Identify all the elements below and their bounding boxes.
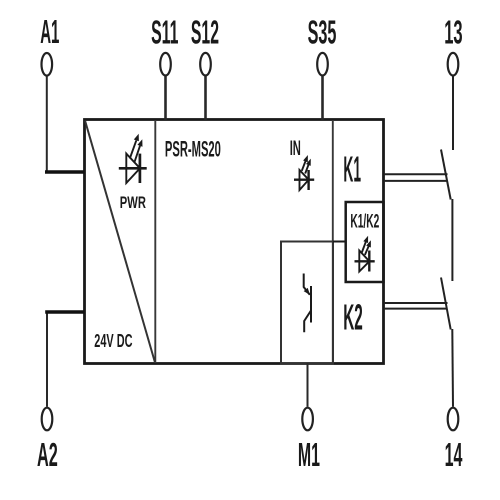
- svg-text:A1: A1: [40, 14, 59, 51]
- wire A1 horizontal into box: [45, 170, 85, 173]
- wire S11: [164, 76, 167, 120]
- svg-text:K1: K1: [343, 148, 361, 189]
- svg-text:S35: S35: [308, 15, 337, 52]
- phototransistor Q1 collector arrowhead: [304, 288, 310, 295]
- phototransistor Q1 emitter: [304, 311, 311, 333]
- K1/K2 indicator box: [346, 202, 384, 282]
- terminal 14: [448, 408, 459, 431]
- svg-text:13: 13: [444, 15, 462, 52]
- terminal M1: [302, 408, 313, 431]
- main relay body outline U1 PSR-MS20: [85, 120, 384, 364]
- svg-text:PSR-MS20: PSR-MS20: [165, 136, 221, 161]
- wire contact K2 to terminal 14: [451, 329, 454, 407]
- terminal S11: [160, 53, 171, 76]
- contact K2 lever: [441, 278, 451, 330]
- svg-text:A2: A2: [37, 437, 58, 474]
- linkage K1 double line: [384, 173, 448, 175]
- phototransistor Q1 base bar: [310, 286, 312, 323]
- wire A2 horizontal into box: [45, 310, 84, 313]
- LED K1/K2 D3: [355, 236, 375, 272]
- wire between contacts: [451, 199, 453, 281]
- wire S12: [204, 76, 207, 120]
- divider K1 K2 column: [332, 120, 334, 363]
- svg-text:K1/K2: K1/K2: [350, 210, 379, 232]
- wire opto box to K1/K2 box: [333, 241, 346, 243]
- terminal 13: [448, 53, 459, 76]
- divider power section: [154, 120, 156, 363]
- terminal S35: [317, 53, 328, 76]
- svg-text:K2: K2: [343, 296, 363, 337]
- terminal S12: [200, 53, 211, 76]
- svg-text:M1: M1: [298, 437, 320, 474]
- phototransistor Q1 collector: [304, 274, 310, 295]
- LED IN D2: [294, 155, 314, 190]
- svg-text:S12: S12: [191, 15, 219, 52]
- linkage K2 double line: [384, 302, 448, 304]
- wire S35: [321, 76, 324, 120]
- wire terminal 13 down: [452, 76, 454, 150]
- svg-text:S11: S11: [151, 15, 178, 52]
- contact K1 lever: [441, 150, 451, 200]
- LED PWR D1: [119, 134, 147, 183]
- svg-text:IN: IN: [290, 136, 301, 160]
- optocoupler box U2: [281, 242, 333, 364]
- svg-text:14: 14: [445, 437, 463, 474]
- terminal A2: [42, 408, 53, 431]
- svg-text:24V DC: 24V DC: [94, 331, 132, 351]
- wire A2 vertical: [46, 312, 48, 407]
- wire M1: [307, 363, 309, 407]
- power supply diagonal: [85, 121, 155, 363]
- terminal A1: [42, 53, 53, 76]
- svg-text:PWR: PWR: [120, 193, 146, 212]
- wire A1 vertical: [46, 77, 48, 173]
